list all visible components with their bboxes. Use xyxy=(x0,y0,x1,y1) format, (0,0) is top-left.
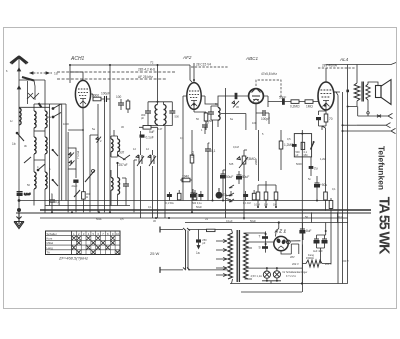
svg-text:0,1: 0,1 xyxy=(211,149,216,153)
osc section coil L10a xyxy=(111,139,113,152)
bus chassis heavy xyxy=(40,209,371,211)
switch arrow 1a bottom xyxy=(197,243,200,249)
transformer secondary winding xyxy=(244,233,249,279)
wire grid components xyxy=(121,99,128,113)
wire top rail to AF2 xyxy=(70,65,192,83)
volume pot wiper arrow xyxy=(237,157,248,168)
bus mid left xyxy=(45,205,130,207)
wire 331 xyxy=(330,198,332,223)
svg-text:0,1uF: 0,1uF xyxy=(226,219,233,223)
AVC line 2M xyxy=(258,130,260,181)
junction dot tone xyxy=(301,133,303,135)
wire 8uF xyxy=(302,233,304,240)
decoupling elcap 0,1uF xyxy=(140,135,145,138)
svg-text:5000: 5000 xyxy=(296,162,302,166)
bypass elcap 50uF mid xyxy=(191,193,196,197)
contact arrow dark xyxy=(39,103,42,108)
padder cap xyxy=(49,200,55,202)
svg-text:1000: 1000 xyxy=(63,122,69,126)
osc coil L11a xyxy=(111,178,113,191)
AZ1 anode dots xyxy=(276,238,281,244)
svg-text:1,2M: 1,2M xyxy=(320,157,326,161)
screen resistor AL4 xyxy=(324,192,328,200)
dashed label line 47x5,8kHz above ABC1 xyxy=(256,80,281,97)
lamp stubs xyxy=(262,268,281,283)
svg-text:24uF: 24uF xyxy=(72,184,78,188)
switch arm antenna trim xyxy=(22,77,34,81)
wire 317 xyxy=(316,176,318,201)
AL4 cathode dot xyxy=(324,104,326,106)
svg-text:2u: 2u xyxy=(314,167,318,171)
svg-text:0,1: 0,1 xyxy=(148,205,152,209)
dial lamp 1 xyxy=(263,271,270,278)
wave band table frame xyxy=(46,231,121,255)
dial-drive dashed line AF 25kHz xyxy=(57,78,166,80)
dashed label line 28V 46mA above AL4 xyxy=(318,67,356,69)
svg-text:147: 147 xyxy=(158,127,163,131)
svg-text:Lang: Lang xyxy=(47,246,54,250)
tone cap dark xyxy=(292,144,297,147)
AZ1 guide pin xyxy=(286,240,290,244)
AF coupling cap 50pF xyxy=(282,98,285,104)
svg-text:+50u: +50u xyxy=(320,183,327,187)
wire caps left xyxy=(252,233,274,242)
wire osc2 xyxy=(111,152,126,206)
tone resistor xyxy=(301,142,305,149)
band switch 2a xyxy=(53,104,61,109)
wire bandfilter top xyxy=(34,104,45,137)
osc switch contact dots xyxy=(117,154,119,156)
wire field coil xyxy=(302,212,337,292)
svg-text:AF 25 kHz: AF 25 kHz xyxy=(138,75,153,79)
RF coil L7 xyxy=(45,172,47,189)
svg-text:5uF: 5uF xyxy=(149,130,155,134)
wire switch to fuse xyxy=(188,229,207,231)
junction dot antenna bus xyxy=(18,200,20,202)
svg-text:202 V: 202 V xyxy=(292,262,299,266)
svg-text:70 Ω: 70 Ω xyxy=(337,215,343,219)
AF2 screen cap xyxy=(202,125,208,127)
wire left column joins xyxy=(34,154,45,213)
power transformer primary winding xyxy=(228,233,233,279)
top rail AL4 xyxy=(326,63,396,111)
rectifier tube AZ1 xyxy=(274,236,288,250)
osc switch 5d xyxy=(118,155,130,160)
tap arrowheads xyxy=(223,239,227,276)
svg-text:0,1: 0,1 xyxy=(180,136,184,140)
svg-text:100: 100 xyxy=(116,95,122,99)
series resistor xyxy=(143,126,151,130)
resistor 1940 xyxy=(182,178,190,182)
IF trimmer arrow xyxy=(232,101,239,108)
wire osc tap xyxy=(68,132,76,212)
bottom bus 292 xyxy=(241,291,302,293)
wire IF1 xyxy=(148,98,172,218)
svg-text:ABC1: ABC1 xyxy=(245,56,258,61)
svg-text:100pF: 100pF xyxy=(101,92,110,96)
svg-text:Mittel: Mittel xyxy=(47,241,54,245)
AF2 top wire xyxy=(193,63,195,83)
blocking cap dark xyxy=(235,93,238,99)
svg-text:T: T xyxy=(259,235,261,239)
svg-text:AL4: AL4 xyxy=(339,57,349,62)
svg-text:7c: 7c xyxy=(150,61,154,65)
wire cathode elcap xyxy=(238,171,240,184)
svg-text:MΩ: MΩ xyxy=(304,154,308,157)
svg-text:500: 500 xyxy=(175,115,180,119)
table X marks xyxy=(72,236,119,254)
coupling cap 0,1uF xyxy=(205,149,211,151)
fuse xyxy=(207,229,216,231)
field coil resistor xyxy=(306,260,322,267)
svg-text:1a: 1a xyxy=(196,251,200,255)
svg-text:30: 30 xyxy=(205,121,209,125)
svg-text:50uF: 50uF xyxy=(196,205,202,209)
svg-text:ACH1: ACH1 xyxy=(70,56,85,62)
svg-text:0,1 50u: 0,1 50u xyxy=(166,202,175,205)
AZ1 heater mark xyxy=(278,246,284,249)
switch arm 4b xyxy=(74,190,80,197)
wire row2 drop xyxy=(343,124,357,126)
svg-text:1500Ω: 1500Ω xyxy=(306,256,314,260)
svg-text:pF: pF xyxy=(141,116,144,120)
svg-text:Kurz: Kurz xyxy=(47,237,53,241)
wire arm drop xyxy=(34,81,35,101)
right side vertical wire plate xyxy=(337,95,339,283)
AZ1 wires xyxy=(276,223,301,255)
wire 5nF xyxy=(310,157,312,176)
AL4 cathode cap xyxy=(316,117,321,120)
wire 1940 xyxy=(180,179,192,181)
svg-text:100: 100 xyxy=(252,121,257,125)
mains switch pole 2 xyxy=(187,228,190,270)
AF2 cathode resistor xyxy=(204,113,208,121)
table column lines xyxy=(76,231,115,255)
IF2 trim cap xyxy=(208,112,214,114)
transformer primary taps xyxy=(216,241,227,275)
wire elcap mid xyxy=(192,189,194,201)
svg-text:50uF: 50uF xyxy=(96,217,102,221)
bus dropper elcap D xyxy=(198,194,203,197)
detector feed wire to ABC1 xyxy=(218,96,250,130)
svg-text:0,1 1M: 0,1 1M xyxy=(243,202,251,205)
secondary taps xyxy=(245,233,253,279)
junction dots rail xyxy=(69,64,195,81)
AL4 plate wire bend xyxy=(334,92,338,95)
bus dropper elcap A xyxy=(167,194,172,197)
ACH1 top cap wire xyxy=(70,72,83,80)
grid resistor 0,2M xyxy=(291,100,299,104)
svg-text:220 V: 220 V xyxy=(342,259,349,263)
wire plate node xyxy=(101,65,110,213)
wire otp primary top xyxy=(356,65,358,84)
wire cap xyxy=(198,230,200,240)
switch contact 7b mid xyxy=(229,199,234,202)
tube AL4 envelope xyxy=(318,82,334,110)
svg-text:100pF: 100pF xyxy=(261,117,270,121)
wire fuse to transformer xyxy=(188,230,232,270)
junction dot IF1 xyxy=(157,101,159,103)
svg-text:5000: 5000 xyxy=(92,94,99,98)
grid resistor xyxy=(126,101,130,109)
svg-text:0,5: 0,5 xyxy=(287,137,291,141)
svg-text:8uF: 8uF xyxy=(306,229,312,233)
tube ABC1 envelope xyxy=(249,89,264,104)
twin electrolytics 4uF xyxy=(314,239,319,243)
wire mid xyxy=(34,130,45,132)
right side vertical wire 2 xyxy=(342,92,344,284)
AL4 plate wire xyxy=(334,91,340,93)
svg-text:TA: TA xyxy=(47,251,51,255)
junction dots caps xyxy=(265,233,267,235)
switch crossings xyxy=(27,93,39,99)
svg-text:28 C15 V4: 28 C15 V4 xyxy=(196,63,211,67)
bus chassis 2 xyxy=(16,212,371,214)
speaker switch contact row 2 xyxy=(357,123,391,128)
RF coil L5 xyxy=(45,137,47,154)
trimmer cap 2 xyxy=(69,161,74,167)
tuning gang cap 1 xyxy=(136,155,144,166)
wire cathode res xyxy=(82,186,84,212)
wire IF1 rail feed xyxy=(157,65,159,98)
switch 1a arrow with label xyxy=(30,72,52,74)
speaker switch contact row 3 xyxy=(343,128,396,133)
resistor 1,2M vertical xyxy=(279,141,283,149)
cathode resistor 300 xyxy=(82,192,86,199)
bus 222 xyxy=(185,222,348,224)
speaker coil box xyxy=(376,86,382,98)
svg-text:7 Umd: 7 Umd xyxy=(76,150,80,159)
bus lower 218 xyxy=(40,217,348,219)
svg-text:Ω: Ω xyxy=(86,195,88,199)
section wire y107 xyxy=(19,106,50,108)
RF coil L2 xyxy=(34,111,36,128)
AL4 grid electrodes xyxy=(321,90,332,97)
svg-text:50uF: 50uF xyxy=(226,175,233,179)
wire xyxy=(51,194,53,213)
tone filter box xyxy=(294,134,311,157)
cathode elcap 50uF pot xyxy=(237,175,242,179)
switch fork 31 xyxy=(226,191,231,200)
osc section coil L10b xyxy=(118,139,120,152)
svg-text:500 0,1u: 500 0,1u xyxy=(192,202,202,205)
mains plug terminals xyxy=(159,227,161,273)
junction dot B+ xyxy=(278,221,280,223)
grid leak resistors row xyxy=(256,192,260,200)
svg-text:1b: 1b xyxy=(12,142,16,146)
trimmer box xyxy=(68,148,76,169)
wire xyxy=(256,113,269,124)
svg-text:1MΩ: 1MΩ xyxy=(306,105,313,109)
speaker contact mark xyxy=(377,115,381,118)
IF1 trim cap primary xyxy=(145,111,151,113)
volume pot resistor xyxy=(242,156,246,164)
antenna coil L1 xyxy=(19,108,21,125)
IF transformer 2 coil xyxy=(218,108,220,121)
svg-text:AF2: AF2 xyxy=(182,55,192,60)
mains wires xyxy=(160,230,183,270)
cap feed vertical xyxy=(265,231,267,252)
ACH1 grid electrodes xyxy=(78,89,88,96)
wire AL4 cathode xyxy=(319,110,327,130)
wire 223 xyxy=(223,170,226,201)
svg-text:4,5V 1,1A: 4,5V 1,1A xyxy=(251,274,263,278)
wire vertical 66 xyxy=(61,104,66,201)
wire antenna branch xyxy=(19,80,45,104)
switch 3a xyxy=(38,164,45,170)
band switch 2b xyxy=(53,113,61,118)
svg-text:K T 2 Z A: K T 2 Z A xyxy=(286,275,296,278)
svg-text:ZF=468,5(?)kHz: ZF=468,5(?)kHz xyxy=(58,256,88,261)
AL4 cathode heater xyxy=(323,101,330,111)
speaker terminal xyxy=(367,100,369,112)
wire arm drop 2 xyxy=(26,81,28,104)
junction dots speaker bus xyxy=(342,124,344,126)
table column divider xyxy=(71,231,73,255)
ACH1 plate wire right xyxy=(91,94,93,99)
wire vertical 104.6 xyxy=(104,99,106,212)
svg-text:Telefunken: Telefunken xyxy=(377,146,387,190)
svg-text:0,1uF: 0,1uF xyxy=(24,192,31,196)
wire 209 xyxy=(208,143,210,201)
table row lines xyxy=(46,236,121,250)
transformer core xyxy=(237,230,239,282)
svg-text:2MΩ: 2MΩ xyxy=(254,158,258,165)
svg-text:257uF: 257uF xyxy=(119,163,128,167)
AF2 plate wire xyxy=(201,96,205,101)
AL4 cathode resistor xyxy=(324,114,328,122)
svg-text:0,1uF: 0,1uF xyxy=(146,136,154,140)
dial lamp 2 xyxy=(273,271,280,278)
wire vertical 98 xyxy=(90,104,98,212)
right side vertical wire 3 xyxy=(347,110,349,284)
svg-text:0,1M: 0,1M xyxy=(233,145,239,149)
svg-text:10: 10 xyxy=(116,232,119,236)
svg-text:0,1: 0,1 xyxy=(332,187,336,191)
speaker switch contact row 1 xyxy=(358,113,393,118)
svg-text:47x5,8 kHz: 47x5,8 kHz xyxy=(261,72,277,76)
svg-text:S: S xyxy=(259,246,261,250)
HT cap S xyxy=(262,246,268,249)
decoupling cap 0,1uF left xyxy=(17,192,23,196)
cap 5nF dark xyxy=(309,166,314,169)
grid resistor 1M xyxy=(305,100,313,104)
svg-text:0,1M: 0,1M xyxy=(254,203,260,207)
svg-text:uF: uF xyxy=(296,154,299,157)
svg-text:1940: 1940 xyxy=(182,175,189,179)
dial lamps feed wire xyxy=(252,267,302,269)
bottom bus 283 xyxy=(230,283,348,285)
bus dropper res C xyxy=(193,193,197,200)
elcap 24uF xyxy=(73,180,78,183)
svg-text:25 W: 25 W xyxy=(150,251,160,256)
bus dropper res B xyxy=(177,193,181,200)
ABC1 cathode heater xyxy=(253,99,259,102)
RF coil L4 xyxy=(34,137,36,154)
mains cap 250pF xyxy=(196,239,201,242)
switch 3b xyxy=(24,157,31,163)
band switch column wires xyxy=(50,104,62,206)
switch contact 7a mid xyxy=(229,185,234,196)
ACH1 cathode to ground wire xyxy=(68,108,83,187)
svg-text:525: 525 xyxy=(229,162,234,166)
antenna xyxy=(10,56,28,215)
svg-text:pF: pF xyxy=(202,241,205,245)
wire gang xyxy=(139,127,158,218)
IF1 trim cap secondary xyxy=(169,111,175,113)
wire tone xyxy=(301,130,303,284)
ACH1 cathode xyxy=(80,99,86,108)
svg-text:50uF: 50uF xyxy=(250,219,256,223)
output transformer core xyxy=(362,82,363,102)
ABC1 bypass cap xyxy=(263,110,265,116)
svg-text:282-4,2 kHz: 282-4,2 kHz xyxy=(138,68,156,72)
wire osc vertical xyxy=(134,127,158,218)
wire vertical 90 xyxy=(89,135,91,212)
svg-text:50uF: 50uF xyxy=(242,175,249,179)
wire transformer top to bus xyxy=(232,230,233,284)
svg-text:70: 70 xyxy=(329,117,333,121)
wire AF2 cathode xyxy=(194,110,206,131)
dashed label line 28 C15 V4 above AF2 xyxy=(191,66,229,68)
wire 325 xyxy=(322,126,326,211)
svg-text:50pF: 50pF xyxy=(279,96,286,100)
wire grid line xyxy=(263,96,318,107)
switch arm 4a xyxy=(85,170,95,182)
wire otp primary bottom xyxy=(348,101,357,107)
output transformer secondary winding xyxy=(366,84,370,100)
wire pot xyxy=(244,150,247,220)
osc cap 50pF xyxy=(123,184,129,186)
AF2 cathode heater xyxy=(191,101,197,110)
bus dropper res F xyxy=(252,193,256,200)
svg-text:0,2MΩ: 0,2MΩ xyxy=(290,105,300,109)
wire grid leak tops xyxy=(258,181,276,207)
ABC1 below wire xyxy=(255,103,257,130)
dial-drive dashed line 282-4,2kHz xyxy=(57,71,176,73)
tone switch arm xyxy=(311,142,315,150)
svg-text:5d7: 5d7 xyxy=(119,151,125,155)
sprinkled value labels xyxy=(6,69,349,263)
switch contact 7 xyxy=(52,179,54,181)
switch contact 5 xyxy=(52,149,54,151)
output transformer primary winding xyxy=(354,83,360,101)
HT cap T xyxy=(262,236,268,239)
terminal circle mid xyxy=(92,170,95,173)
svg-text:für Schallwandanzeiger: für Schallwandanzeiger xyxy=(283,271,308,274)
AL4 top wire xyxy=(325,68,327,82)
tuning gang cap 2 xyxy=(148,155,156,166)
osc coil L11b xyxy=(118,178,120,195)
wire AVC xyxy=(191,130,193,213)
ABC1 diode plates xyxy=(252,90,261,97)
svg-text:0,5: 0,5 xyxy=(120,217,124,221)
twin cap wires xyxy=(317,231,326,264)
wire speaker terminal drop xyxy=(358,107,368,117)
screen resistor xyxy=(93,97,101,101)
AF2 grid electrodes xyxy=(189,91,199,98)
cathode junction dot xyxy=(193,103,195,105)
ground xyxy=(14,213,24,229)
RF coil L6 xyxy=(34,172,36,189)
svg-text:Schalter: Schalter xyxy=(47,232,57,236)
electrolytic 50uF xyxy=(221,174,226,178)
bus B+ top xyxy=(18,200,330,202)
wire otp secondary top xyxy=(368,82,378,86)
band switch 1b xyxy=(17,133,24,141)
trimmer cap 1 xyxy=(69,153,74,159)
speaker cone xyxy=(381,80,391,105)
